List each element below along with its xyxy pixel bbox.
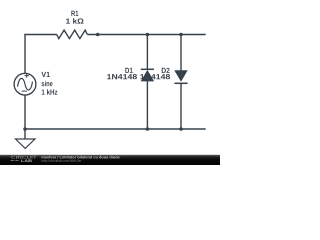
- wire top horizontal right of R1: [87, 34, 205, 36]
- wire D2 bottom lead: [180, 83, 182, 129]
- diode D1: [141, 69, 154, 81]
- V1 value label sine: [42, 81, 53, 87]
- junction dot D2 bottom: [179, 127, 183, 131]
- diode D2: [174, 70, 187, 83]
- junction dot D2 top: [179, 33, 183, 37]
- V1 name label: [41, 72, 49, 77]
- wire D1 bottom lead: [146, 81, 148, 129]
- junction dot V1 bottom: [23, 127, 27, 131]
- watermark bar: [0, 155, 220, 165]
- D1 name label: [125, 68, 132, 73]
- junction dot D1 bottom: [146, 127, 150, 131]
- D1 value label: [107, 74, 137, 79]
- ground: [16, 139, 36, 148]
- junction dot D1 top: [146, 33, 150, 37]
- wire D2 top lead: [180, 35, 182, 71]
- resistor R1 value label: [66, 18, 83, 23]
- wire top horizontal left of R1: [24, 34, 57, 36]
- D2 value label (partly hidden behind D1 triangle): [140, 74, 170, 79]
- wire ground stub: [24, 128, 26, 139]
- resistor R1: [57, 30, 88, 38]
- D2 name label: [162, 68, 170, 73]
- V1 value label 1 kHz: [42, 89, 58, 94]
- resistor R1 name label: [71, 11, 78, 16]
- wire bottom horizontal: [25, 128, 206, 130]
- wire D1 top lead: [146, 35, 148, 70]
- wire left vertical (V1 top lead): [24, 34, 26, 73]
- junction dot after R1: [96, 33, 100, 37]
- voltage source V1: [14, 73, 36, 95]
- wire V1 bottom lead: [24, 95, 26, 129]
